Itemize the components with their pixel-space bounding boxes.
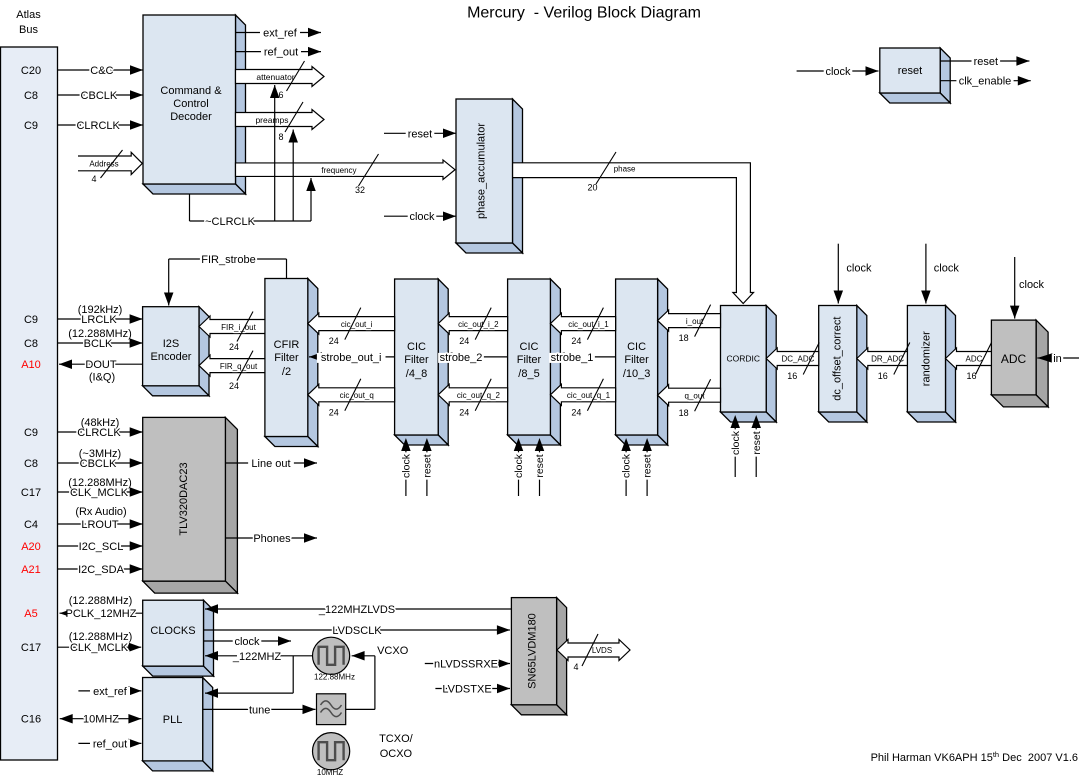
- svg-text:16: 16: [966, 371, 976, 381]
- svg-text:24: 24: [329, 408, 339, 418]
- svg-text:ADC: ADC: [1001, 352, 1027, 366]
- svg-text:6: 6: [278, 90, 283, 100]
- svg-text:ADC: ADC: [966, 355, 983, 364]
- svg-text:C17: C17: [21, 642, 41, 654]
- svg-text:CLRCLK: CLRCLK: [76, 120, 120, 132]
- svg-text:clock: clock: [513, 453, 525, 478]
- svg-text:Mercury - Verilog Block Diagr: Mercury - Verilog Block Diagram: [467, 5, 701, 22]
- svg-text:24: 24: [329, 336, 339, 346]
- svg-text:reset: reset: [534, 454, 546, 477]
- svg-text:clock: clock: [934, 263, 960, 275]
- svg-text:Control: Control: [173, 98, 208, 110]
- svg-text:16: 16: [787, 371, 797, 381]
- svg-text:I2C_SDA: I2C_SDA: [78, 564, 125, 576]
- svg-text:C&C: C&C: [90, 65, 113, 77]
- svg-text:ext_ref: ext_ref: [93, 686, 128, 698]
- svg-text:cic_out_i_1: cic_out_i_1: [568, 320, 609, 329]
- svg-text:Atlas: Atlas: [16, 9, 41, 21]
- svg-text:16: 16: [878, 371, 888, 381]
- svg-text:phase_accumulator: phase_accumulator: [476, 123, 488, 219]
- svg-text:reset: reset: [408, 128, 432, 140]
- svg-text:C20: C20: [21, 65, 41, 77]
- svg-text:FIR_i_out: FIR_i_out: [221, 323, 256, 332]
- svg-text:4: 4: [573, 662, 578, 672]
- svg-text:clock: clock: [1019, 279, 1045, 291]
- svg-text:cic_out_i_2: cic_out_i_2: [458, 320, 499, 329]
- svg-text:24: 24: [459, 408, 469, 418]
- svg-text:CIC: CIC: [407, 341, 426, 353]
- svg-text:Command &: Command &: [160, 85, 222, 97]
- svg-text:VCXO: VCXO: [377, 645, 409, 657]
- svg-text:122.88MHz: 122.88MHz: [314, 673, 355, 682]
- svg-text:CIC: CIC: [520, 341, 539, 353]
- svg-text:_122MHZLVDS: _122MHZLVDS: [318, 604, 395, 616]
- svg-text:attenuator: attenuator: [256, 72, 294, 82]
- svg-text:(12.288MHz): (12.288MHz): [68, 328, 132, 340]
- svg-text:strobe_2: strobe_2: [440, 352, 483, 364]
- svg-text:CFIR: CFIR: [274, 339, 300, 351]
- svg-text:FIR_strobe: FIR_strobe: [201, 254, 255, 266]
- svg-text:Filter: Filter: [404, 354, 429, 366]
- svg-text:clock: clock: [409, 211, 435, 223]
- svg-text:~CLRCLK: ~CLRCLK: [205, 216, 255, 228]
- svg-text:(12.288MHz): (12.288MHz): [68, 477, 132, 489]
- svg-text:ext_ref: ext_ref: [263, 28, 298, 40]
- svg-text:cic_out_q_2: cic_out_q_2: [457, 391, 501, 400]
- svg-text:Filter: Filter: [274, 352, 299, 364]
- svg-text:24: 24: [571, 408, 581, 418]
- svg-text:24: 24: [229, 342, 239, 352]
- svg-text:clock: clock: [825, 66, 851, 78]
- svg-text:C8: C8: [24, 458, 38, 470]
- svg-text:18: 18: [679, 408, 689, 418]
- svg-text:A20: A20: [21, 541, 41, 553]
- svg-text:C8: C8: [24, 90, 38, 102]
- svg-text:phase: phase: [614, 165, 636, 174]
- svg-text:randomizer: randomizer: [921, 331, 933, 386]
- svg-text:Bus: Bus: [19, 24, 38, 36]
- svg-text:(192kHz): (192kHz): [78, 304, 123, 316]
- svg-text:strobe_1: strobe_1: [551, 352, 594, 364]
- svg-text:_122MHZ: _122MHZ: [232, 651, 282, 663]
- svg-text:strobe_out_i: strobe_out_i: [321, 352, 382, 364]
- svg-text:PCLK_12MHZ: PCLK_12MHZ: [66, 608, 137, 620]
- svg-text:Encoder: Encoder: [151, 351, 192, 363]
- svg-text:reset: reset: [898, 65, 922, 77]
- svg-text:clock: clock: [621, 453, 633, 478]
- svg-text:in: in: [1053, 353, 1062, 365]
- svg-text:/4_8: /4_8: [406, 368, 427, 380]
- svg-text:LROUT: LROUT: [81, 519, 119, 531]
- svg-text:Phil Harman VK6APH 15th Dec 2: Phil Harman VK6APH 15th Dec 2007 V1.6: [871, 750, 1078, 764]
- svg-text:/8_5: /8_5: [518, 368, 539, 380]
- svg-text:clk_enable: clk_enable: [959, 76, 1012, 88]
- svg-text:DOUT: DOUT: [85, 359, 116, 371]
- svg-text:reset: reset: [422, 454, 434, 477]
- svg-text:TCXO/: TCXO/: [379, 733, 414, 745]
- svg-text:10MHZ: 10MHZ: [317, 768, 343, 777]
- svg-text:reset: reset: [974, 56, 998, 68]
- svg-text:/10_3: /10_3: [623, 368, 651, 380]
- svg-text:/2: /2: [282, 366, 291, 378]
- svg-text:LVDS: LVDS: [592, 646, 612, 655]
- svg-text:Filter: Filter: [517, 354, 542, 366]
- svg-text:CLK_MCLK: CLK_MCLK: [70, 642, 129, 654]
- svg-text:C16: C16: [21, 714, 41, 726]
- svg-text:OCXO: OCXO: [380, 748, 413, 760]
- svg-text:reset: reset: [642, 454, 654, 477]
- svg-text:A21: A21: [21, 564, 41, 576]
- svg-text:clock: clock: [846, 263, 872, 275]
- svg-text:C4: C4: [24, 519, 38, 531]
- svg-text:C9: C9: [24, 427, 38, 439]
- svg-text:CORDIC: CORDIC: [727, 354, 761, 364]
- svg-text:4: 4: [91, 174, 96, 184]
- svg-text:(I&Q): (I&Q): [89, 372, 115, 384]
- svg-text:18: 18: [679, 333, 689, 343]
- svg-text:Decoder: Decoder: [170, 111, 212, 123]
- svg-text:clock: clock: [401, 453, 413, 478]
- svg-text:(12.288MHz): (12.288MHz): [69, 595, 133, 607]
- svg-text:CBCLK: CBCLK: [81, 90, 118, 102]
- svg-text:CIC: CIC: [627, 341, 646, 353]
- svg-text:preamps: preamps: [255, 115, 288, 125]
- svg-text:24: 24: [571, 336, 581, 346]
- svg-text:Filter: Filter: [624, 354, 649, 366]
- svg-text:(~3MHz): (~3MHz): [79, 448, 121, 460]
- svg-text:24: 24: [229, 381, 239, 391]
- svg-text:tune: tune: [249, 704, 270, 716]
- svg-text:clock: clock: [234, 636, 260, 648]
- svg-text:clock: clock: [730, 430, 742, 455]
- svg-text:24: 24: [459, 336, 469, 346]
- svg-text:32: 32: [355, 185, 365, 195]
- svg-text:(48kHz): (48kHz): [81, 417, 120, 429]
- svg-text:SN65LVDM180: SN65LVDM180: [527, 613, 539, 689]
- svg-text:frequency: frequency: [321, 166, 356, 175]
- svg-text:reset: reset: [751, 431, 763, 454]
- svg-text:A5: A5: [24, 608, 37, 620]
- svg-text:dc_offset_correct: dc_offset_correct: [832, 317, 844, 401]
- svg-text:TLV320DAC23: TLV320DAC23: [178, 462, 190, 535]
- svg-text:LVDSCLK: LVDSCLK: [332, 625, 382, 637]
- svg-text:10MHZ: 10MHZ: [83, 714, 119, 726]
- svg-text:ref_out: ref_out: [93, 738, 127, 750]
- svg-text:LVDSTXE: LVDSTXE: [442, 684, 491, 696]
- svg-text:cic_out_i: cic_out_i: [341, 320, 373, 329]
- svg-text:A10: A10: [21, 359, 41, 371]
- svg-text:FIR_q_out: FIR_q_out: [220, 362, 258, 371]
- svg-text:C9: C9: [24, 314, 38, 326]
- svg-text:Phones: Phones: [253, 533, 291, 545]
- svg-text:(12.288MHz): (12.288MHz): [69, 631, 133, 643]
- svg-text:C17: C17: [21, 487, 41, 499]
- svg-text:nLVDSSRXE: nLVDSSRXE: [434, 659, 498, 671]
- svg-text:(Rx Audio): (Rx Audio): [75, 506, 126, 518]
- svg-text:cic_out_q: cic_out_q: [340, 391, 374, 400]
- svg-text:CLOCKS: CLOCKS: [150, 625, 195, 637]
- svg-text:I2C_SCL: I2C_SCL: [79, 541, 124, 553]
- svg-text:ref_out: ref_out: [264, 47, 298, 59]
- svg-text:Line out: Line out: [251, 458, 290, 470]
- svg-text:8: 8: [278, 132, 283, 142]
- svg-text:I2S: I2S: [163, 338, 180, 350]
- svg-text:C8: C8: [24, 338, 38, 350]
- svg-text:cic_out_q_1: cic_out_q_1: [567, 391, 611, 400]
- svg-text:C9: C9: [24, 120, 38, 132]
- svg-text:PLL: PLL: [163, 714, 183, 726]
